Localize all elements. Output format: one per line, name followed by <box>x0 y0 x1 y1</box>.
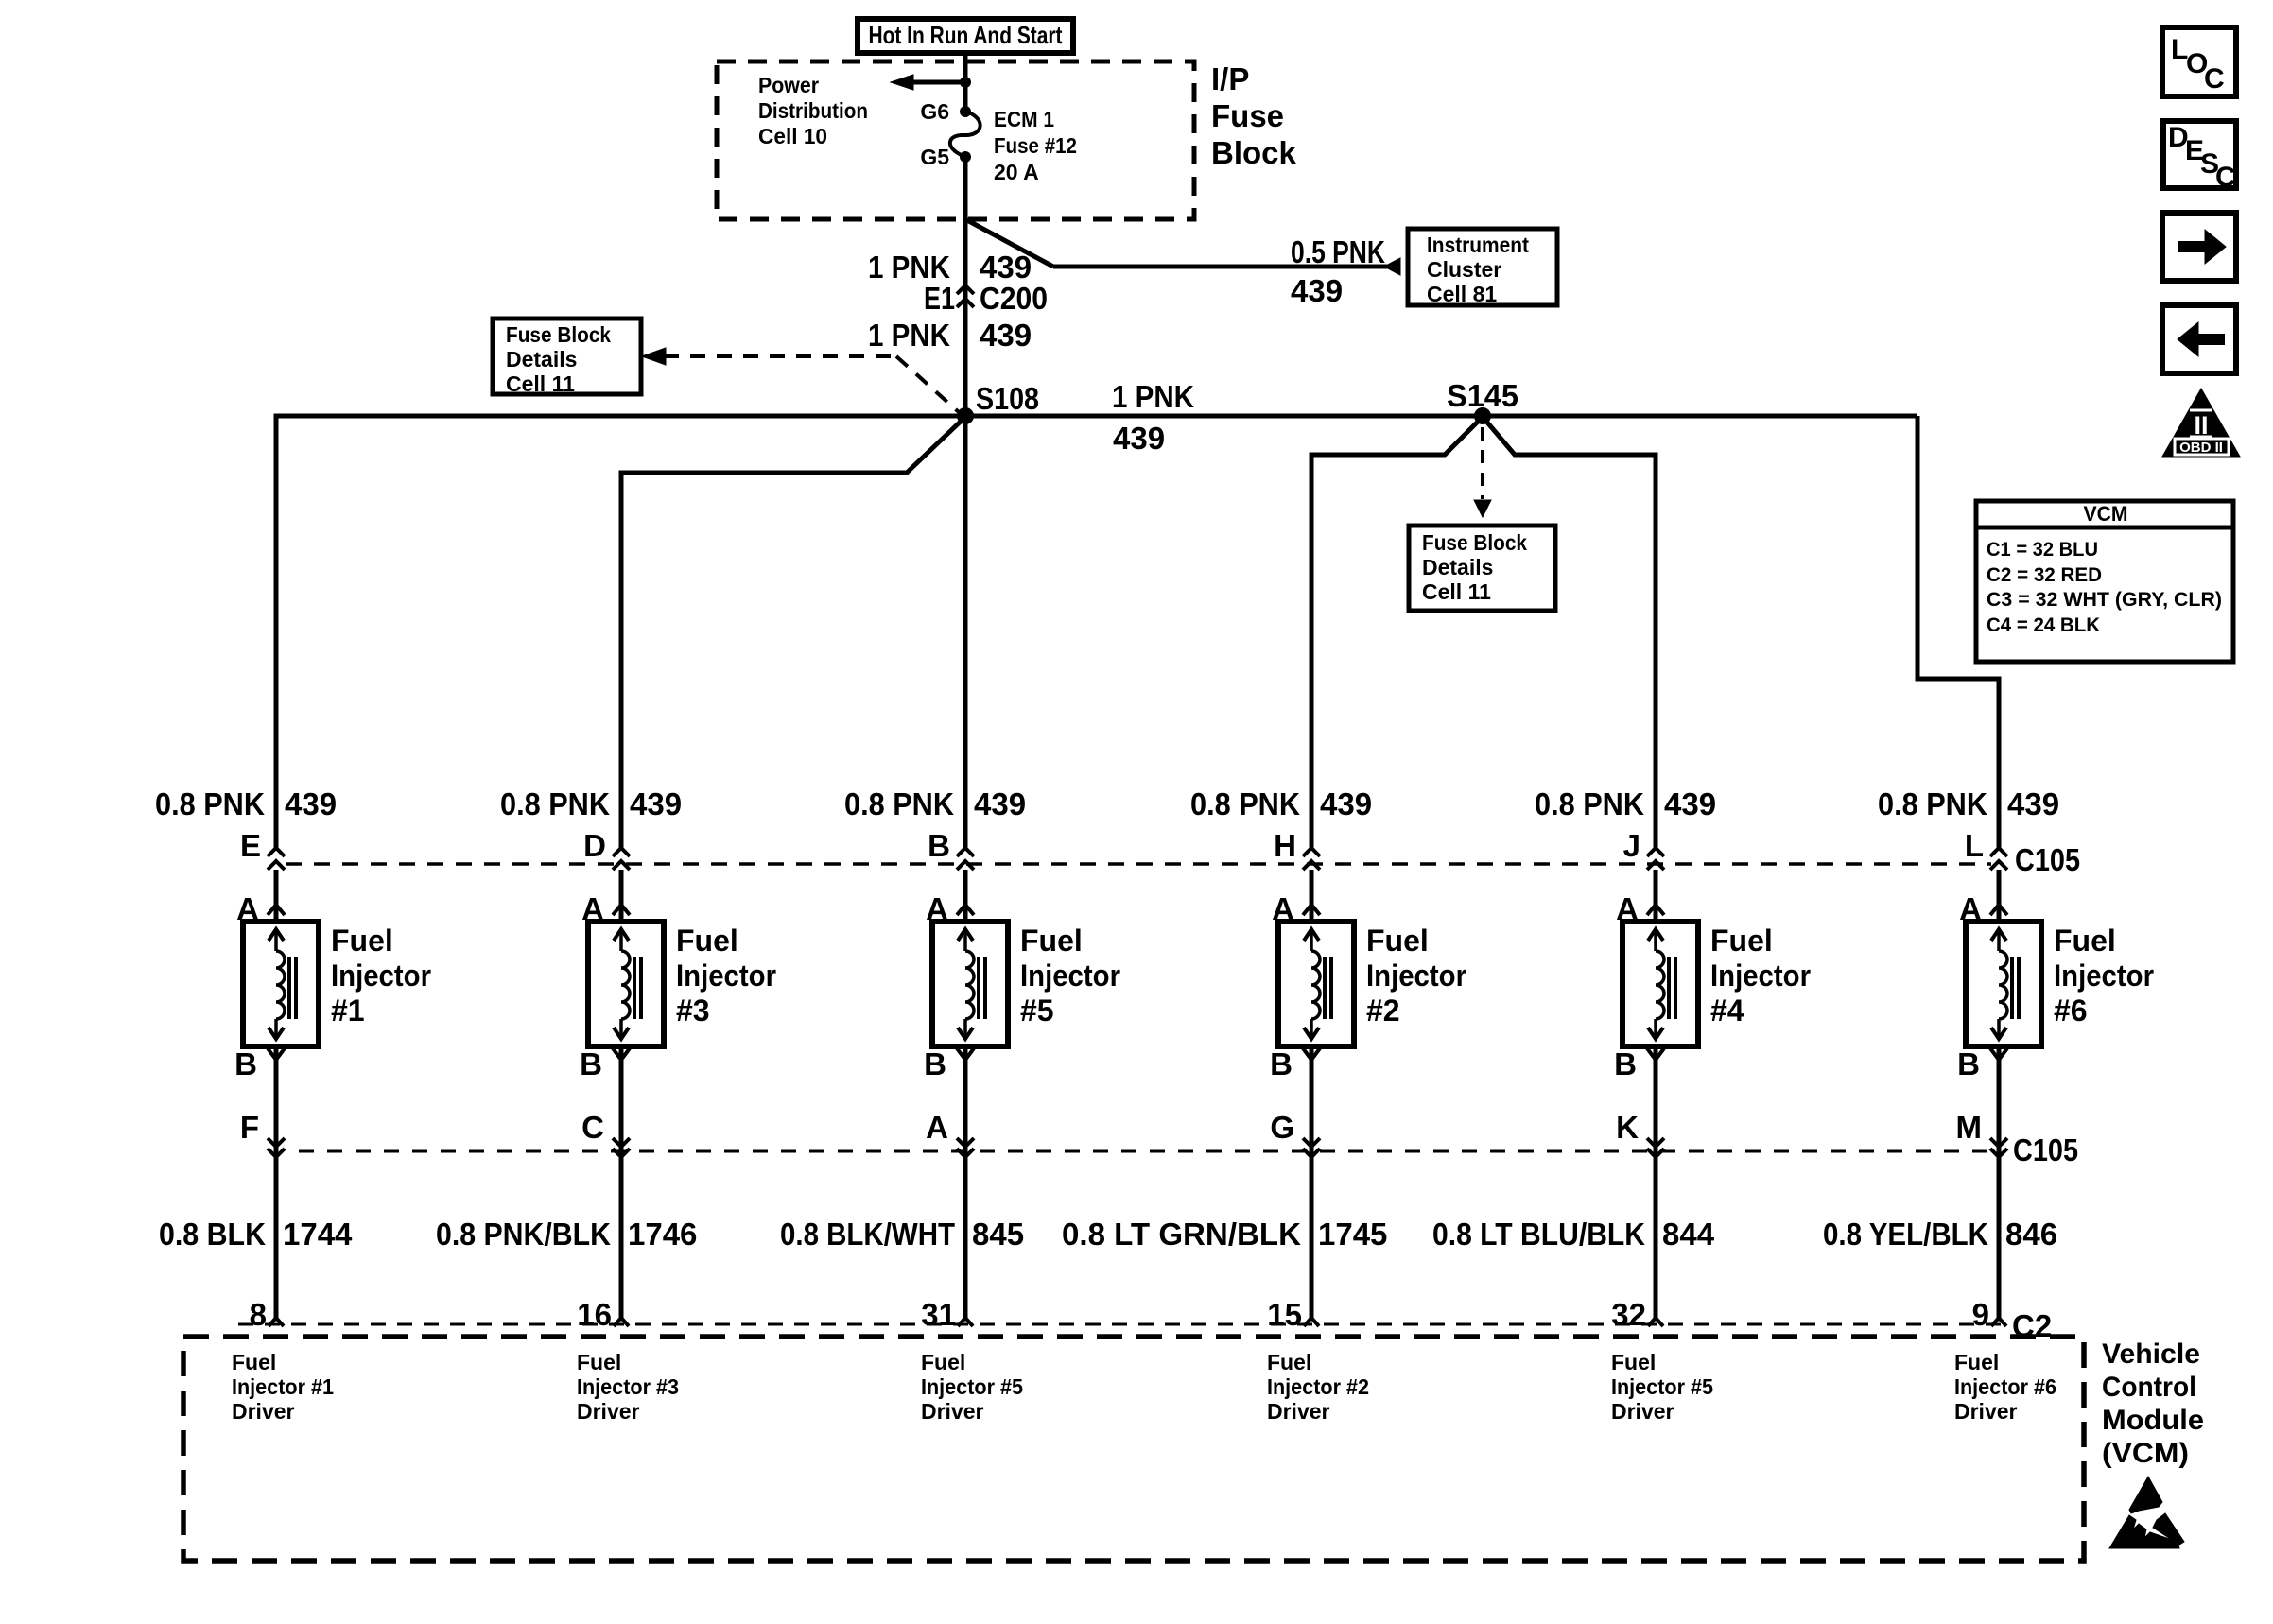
svg-text:Fuse #12: Fuse #12 <box>994 133 1077 158</box>
svg-text:0.8 PNK: 0.8 PNK <box>1878 786 1987 821</box>
svg-text:439: 439 <box>1664 786 1716 821</box>
svg-text:C105: C105 <box>2013 1132 2078 1167</box>
svg-text:Fuel: Fuel <box>232 1350 276 1374</box>
svg-text:C: C <box>2215 162 2236 193</box>
svg-text:1746: 1746 <box>628 1217 697 1252</box>
svg-text:C: C <box>2204 63 2225 95</box>
svg-text:Injector #2: Injector #2 <box>1267 1374 1369 1399</box>
svg-text:Injector: Injector <box>1366 959 1466 993</box>
svg-text:B: B <box>580 1046 602 1081</box>
svg-text:Module: Module <box>2102 1405 2204 1436</box>
svg-text:16: 16 <box>577 1297 612 1332</box>
svg-text:Control: Control <box>2102 1372 2196 1403</box>
svg-text:F: F <box>240 1110 259 1145</box>
svg-text:Injector: Injector <box>2054 959 2154 993</box>
svg-text:Fuel: Fuel <box>1710 924 1773 958</box>
svg-text:0.5 PNK: 0.5 PNK <box>1291 234 1385 269</box>
svg-text:J: J <box>1623 828 1640 863</box>
svg-text:Injector #5: Injector #5 <box>921 1374 1023 1399</box>
svg-text:Fuel: Fuel <box>577 1350 621 1374</box>
svg-text:E: E <box>240 828 261 863</box>
svg-text:0.8 PNK: 0.8 PNK <box>1190 786 1300 821</box>
svg-text:B: B <box>924 1046 946 1081</box>
svg-text:M: M <box>1956 1110 1983 1145</box>
svg-text:Fuel: Fuel <box>921 1350 965 1374</box>
svg-text:S108: S108 <box>976 381 1039 416</box>
svg-text:Details: Details <box>1422 555 1493 579</box>
svg-text:B: B <box>1957 1046 1980 1081</box>
svg-text:Fuel: Fuel <box>331 924 393 958</box>
svg-text:B: B <box>234 1046 257 1081</box>
svg-text:0.8 PNK: 0.8 PNK <box>1535 786 1644 821</box>
svg-text:#1: #1 <box>331 993 365 1028</box>
svg-text:Power: Power <box>758 73 819 97</box>
svg-text:Injector: Injector <box>331 959 431 993</box>
svg-text:G6: G6 <box>920 99 949 124</box>
svg-text:Fuel: Fuel <box>1611 1350 1656 1374</box>
svg-text:E1: E1 <box>924 281 955 316</box>
svg-text:31: 31 <box>921 1297 956 1332</box>
svg-text:0.8 PNK: 0.8 PNK <box>844 786 954 821</box>
svg-text:8: 8 <box>250 1297 267 1332</box>
svg-text:1 PNK: 1 PNK <box>868 318 950 353</box>
svg-text:G: G <box>1270 1110 1294 1145</box>
svg-text:I/P: I/P <box>1211 61 1249 96</box>
svg-text:Block: Block <box>1211 135 1297 170</box>
svg-text:(VCM): (VCM) <box>2102 1438 2189 1469</box>
svg-text:Injector #1: Injector #1 <box>232 1374 334 1399</box>
svg-text:C: C <box>581 1110 604 1145</box>
svg-text:K: K <box>1616 1110 1639 1145</box>
svg-text:0.8 LT GRN/BLK: 0.8 LT GRN/BLK <box>1062 1217 1301 1252</box>
svg-text:1745: 1745 <box>1318 1217 1387 1252</box>
svg-text:844: 844 <box>1662 1217 1715 1252</box>
svg-text:Fuel: Fuel <box>1954 1350 1999 1374</box>
svg-text:0.8 PNK: 0.8 PNK <box>500 786 610 821</box>
svg-text:#4: #4 <box>1710 993 1744 1028</box>
svg-text:Fuse: Fuse <box>1211 98 1284 133</box>
svg-text:C4 = 24 BLK: C4 = 24 BLK <box>1987 614 2100 636</box>
svg-text:H: H <box>1274 828 1296 863</box>
svg-text:Injector: Injector <box>676 959 776 993</box>
svg-text:32: 32 <box>1611 1297 1646 1332</box>
svg-text:#2: #2 <box>1366 993 1400 1028</box>
svg-text:439: 439 <box>1320 786 1372 821</box>
svg-text:L: L <box>1965 828 1984 863</box>
svg-text:1 PNK: 1 PNK <box>868 250 950 285</box>
svg-text:Driver: Driver <box>1267 1399 1330 1424</box>
svg-text:#3: #3 <box>676 993 710 1028</box>
svg-text:VCM: VCM <box>2084 502 2128 526</box>
svg-text:Fuel: Fuel <box>1020 924 1083 958</box>
svg-text:845: 845 <box>972 1217 1024 1252</box>
svg-text:C2 = 32 RED: C2 = 32 RED <box>1987 564 2102 586</box>
svg-text:Fuse Block: Fuse Block <box>1422 530 1527 555</box>
svg-text:Injector #6: Injector #6 <box>1954 1374 2056 1399</box>
svg-text:Details: Details <box>506 347 577 371</box>
svg-text:0.8 YEL/BLK: 0.8 YEL/BLK <box>1823 1217 1988 1252</box>
svg-text:439: 439 <box>980 318 1032 353</box>
svg-text:Cell 81: Cell 81 <box>1427 282 1497 306</box>
svg-text:C3 = 32 WHT (GRY, CLR): C3 = 32 WHT (GRY, CLR) <box>1987 589 2222 611</box>
svg-text:A: A <box>926 1110 948 1145</box>
svg-text:#6: #6 <box>2054 993 2088 1028</box>
svg-text:Injector #5: Injector #5 <box>1611 1374 1713 1399</box>
svg-text:Fuel: Fuel <box>1366 924 1429 958</box>
svg-text:Fuel: Fuel <box>1267 1350 1311 1374</box>
svg-text:Cell 10: Cell 10 <box>758 124 827 148</box>
svg-text:Fuel: Fuel <box>2054 924 2116 958</box>
svg-text:Fuel: Fuel <box>676 924 738 958</box>
svg-text:Distribution: Distribution <box>758 98 868 123</box>
svg-text:Driver: Driver <box>921 1399 984 1424</box>
svg-text:Hot In Run And Start: Hot In Run And Start <box>869 21 1063 49</box>
svg-text:Injector #3: Injector #3 <box>577 1374 679 1399</box>
svg-text:B: B <box>1614 1046 1637 1081</box>
svg-text:Driver: Driver <box>1611 1399 1674 1424</box>
svg-text:439: 439 <box>1113 421 1165 456</box>
svg-text:ECM 1: ECM 1 <box>994 107 1054 131</box>
svg-text:439: 439 <box>1291 273 1343 308</box>
svg-text:439: 439 <box>974 786 1026 821</box>
svg-text:439: 439 <box>630 786 682 821</box>
svg-text:C200: C200 <box>980 281 1048 316</box>
svg-text:OBD II: OBD II <box>2179 440 2223 456</box>
svg-text:1 PNK: 1 PNK <box>1112 379 1194 414</box>
svg-text:C1 = 32 BLU: C1 = 32 BLU <box>1987 539 2098 561</box>
svg-text:Instrument: Instrument <box>1427 233 1529 257</box>
svg-text:Injector: Injector <box>1710 959 1811 993</box>
svg-text:Driver: Driver <box>1954 1399 2018 1424</box>
svg-text:439: 439 <box>980 250 1032 285</box>
svg-text:Driver: Driver <box>232 1399 295 1424</box>
svg-text:20 A: 20 A <box>994 160 1039 184</box>
svg-text:G5: G5 <box>920 145 949 169</box>
svg-text:Fuse Block: Fuse Block <box>506 322 611 347</box>
svg-text:B: B <box>928 828 950 863</box>
svg-text:0.8 LT BLU/BLK: 0.8 LT BLU/BLK <box>1432 1217 1645 1252</box>
svg-text:1744: 1744 <box>283 1217 353 1252</box>
svg-text:439: 439 <box>2007 786 2059 821</box>
svg-text:Cluster: Cluster <box>1427 257 1501 282</box>
svg-text:0.8 BLK: 0.8 BLK <box>159 1217 266 1252</box>
svg-text:D: D <box>583 828 606 863</box>
svg-text:Injector: Injector <box>1020 959 1120 993</box>
svg-text:0.8 PNK: 0.8 PNK <box>155 786 265 821</box>
svg-text:Cell 11: Cell 11 <box>506 371 575 396</box>
svg-text:9: 9 <box>1972 1297 1989 1332</box>
svg-text:Cell 11: Cell 11 <box>1422 579 1491 604</box>
svg-text:439: 439 <box>285 786 337 821</box>
svg-text:Vehicle: Vehicle <box>2102 1339 2200 1370</box>
svg-text:0.8 PNK/BLK: 0.8 PNK/BLK <box>436 1217 611 1252</box>
svg-text:15: 15 <box>1267 1297 1302 1332</box>
svg-text:B: B <box>1270 1046 1293 1081</box>
svg-text:Driver: Driver <box>577 1399 640 1424</box>
svg-text:846: 846 <box>2005 1217 2057 1252</box>
svg-text:C105: C105 <box>2015 842 2080 877</box>
svg-text:0.8 BLK/WHT: 0.8 BLK/WHT <box>780 1217 955 1252</box>
svg-text:S145: S145 <box>1447 378 1518 413</box>
svg-text:#5: #5 <box>1020 993 1054 1028</box>
